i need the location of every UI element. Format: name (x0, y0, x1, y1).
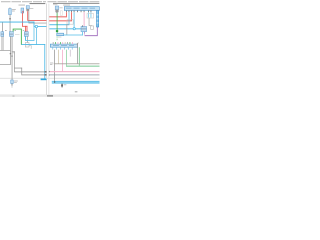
wire up from relay K1 (1, 23, 4, 32)
red feeder 1 (49, 15, 67, 18)
text inside bar F (66, 7, 95, 10)
K1 lower pin wire cyan (1, 36, 4, 50)
small text right page bottom (75, 91, 78, 92)
gray step wire right (89, 18, 92, 26)
cyan drop wire x34 (33, 27, 36, 41)
faint label near D2 (15, 33, 20, 36)
left page right border (45, 4, 48, 95)
relay E1 top (55, 6, 59, 13)
cyan bottom bus K (52, 81, 100, 84)
cascade tan wire (57, 50, 60, 64)
red wire jog to K4 (22, 25, 27, 28)
gray connector outline G2 (67, 20, 73, 24)
right page left border (48, 4, 51, 95)
relay G (81, 26, 87, 32)
cyan link K4 to drop (25, 39, 34, 42)
relay K4 (24, 32, 28, 37)
K2 lower pin wire gray b (11, 36, 14, 80)
gray wire right end drop (76, 43, 79, 64)
junction ring on cyan bus (35, 25, 37, 27)
connector D bottom-left (11, 80, 14, 86)
ECU bus bar F (64, 7, 99, 11)
small faint connector outline left of pins (60, 11, 62, 16)
red wire from B1 down (21, 13, 24, 27)
cascade light green wire (65, 50, 68, 66)
cyan wire bar pin 4 (73, 12, 76, 28)
colored pin ticks above bar J (53, 42, 73, 44)
cyan bus jog down (33, 22, 36, 27)
small mark near x12 y52 (13, 51, 15, 54)
cyan feeder 1 (49, 23, 69, 26)
label text L (64, 83, 67, 86)
gray exit line y64 (0, 63, 11, 66)
vertical bus bar I right edge (97, 11, 99, 28)
arrow marks on verticals (10, 53, 13, 56)
green dashed tail below H (56, 36, 59, 40)
purple wire from relay G (84, 27, 98, 36)
cyan run to long drop (21, 43, 45, 46)
gray bus line y74.9 (50, 74, 100, 77)
pink bus line y71.6 (50, 71, 100, 72)
connector outline top right (87, 14, 94, 18)
gray vertical x21.6 (20, 68, 23, 75)
footer text (47, 95, 53, 96)
small label text left of tan line (50, 63, 53, 65)
red wire drop to K4 pin (24, 26, 27, 32)
CAN bus bar J (50, 44, 77, 47)
green wire from bar J right (78, 47, 81, 66)
wire from A1 down (9, 15, 12, 32)
gray step wire from D2 (29, 45, 32, 49)
connector bead L (61, 84, 63, 86)
label text D (14, 80, 18, 83)
ground mark below D (11, 86, 13, 89)
cascade gray wire to bottom bus (53, 50, 56, 82)
light green bus line y67 (66, 66, 100, 67)
gray hook at bar J right end (76, 42, 78, 44)
cyan bus lower run (34, 25, 47, 28)
edge ticks y72 y75 (45, 71, 47, 75)
blue wire pin8 into connector box (87, 12, 90, 17)
label ticks beside relays (5, 29, 24, 32)
cyan long vertical drop (43, 44, 46, 80)
header text row left page (1, 0, 46, 3)
tan bus line y63.6 (54, 62, 100, 65)
green jumper loop (13, 29, 22, 45)
K4 lower pin cyan (24, 36, 27, 40)
arrow on wire A1 (9, 18, 11, 19)
header text row right page (48, 0, 100, 3)
relay C1 top (26, 6, 29, 12)
red feeder line to page edge (27, 19, 46, 22)
gray wire from G2 down (66, 24, 69, 35)
K2 lower pin wire gray a (9, 36, 12, 64)
cyan exit to page edge (44, 78, 46, 81)
blue wire pin9 (90, 12, 93, 17)
gray wire from C1 second pin (28, 11, 31, 23)
header rule right page (53, 3, 99, 4)
red wire bar pin 2 (70, 12, 73, 20)
junction dot on bus K (54, 81, 55, 83)
cyan feeder 2 (49, 27, 81, 30)
label text B1 (19, 4, 26, 7)
relay K1 (1, 32, 4, 37)
text inside bar J (53, 44, 74, 47)
K1 lower pin wire gray (2, 36, 5, 50)
label text A1 (12, 9, 16, 11)
gray feeder line to page edge (29, 22, 47, 25)
wire L below bus K (61, 83, 64, 87)
pink wire bar pin to relay G (83, 12, 86, 26)
header rule left page (30, 3, 46, 4)
green junction bead (56, 30, 58, 32)
label text C1 (30, 7, 34, 10)
junction ring on feeder 2 (73, 28, 75, 30)
connector B1 (21, 8, 24, 13)
red wire from C1 (26, 11, 29, 20)
branch vertical x14.4 (13, 51, 16, 72)
gray bus y72 to edge (14, 71, 46, 74)
relay K2 (9, 32, 13, 37)
light gray band across pages (0, 78, 100, 79)
junction bar H (57, 33, 64, 36)
cyan stubs below bar J (52, 47, 72, 49)
cyan wire from relay G bottom (81, 32, 84, 36)
text below bar H (58, 36, 61, 39)
red wire bar pin 1 (65, 12, 68, 16)
continuation ticks left margin (49, 71, 50, 76)
green wire from relay E1 (56, 13, 59, 33)
red feeder 2 (49, 19, 72, 22)
label text E1 (59, 6, 62, 9)
cascade green wire short (69, 50, 72, 57)
cyan bus left (0, 21, 34, 24)
label above bar F (63, 4, 70, 7)
bar F pin stubs (66, 11, 91, 13)
connector A1 top-left (9, 7, 12, 14)
gray link y68 (14, 67, 22, 70)
gray bus y75 to edge (21, 74, 46, 77)
gray exit line y50 (0, 49, 11, 52)
cyan drop wire x36.5 (35, 28, 38, 45)
K4 lower pin gray (26, 36, 29, 42)
small gray connector (91, 26, 94, 29)
cascade pink wire (61, 50, 64, 72)
branch corner y51.6 (12, 50, 15, 53)
red wire drop b to K4 pin (26, 26, 29, 32)
footer bar (0, 94, 100, 97)
gray connector D2 (25, 43, 29, 47)
cyan link H to relay G (64, 34, 83, 37)
cyan wire bar pin 3 (68, 12, 71, 24)
